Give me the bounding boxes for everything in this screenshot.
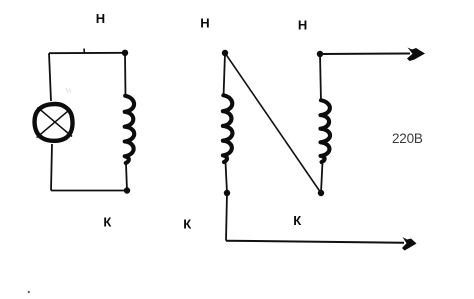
junction node right top bbox=[317, 51, 323, 57]
wire right vertical upper bbox=[320, 54, 321, 102]
diagonal wire middle-top to right-bottom bbox=[225, 53, 321, 193]
stray tick on wire bbox=[83, 49, 85, 54]
svg-text:К: К bbox=[293, 213, 301, 228]
junction node middle lower bbox=[224, 190, 230, 196]
wire right vertical lower bbox=[321, 162, 323, 193]
winding L3 bbox=[321, 100, 331, 162]
wire middle vertical lower bbox=[226, 162, 228, 193]
wire left vertical upper bbox=[49, 53, 51, 101]
junction node middle top bbox=[222, 50, 228, 56]
svg-text:220В: 220В bbox=[392, 131, 423, 146]
wire left-branch right vertical upper bbox=[124, 53, 127, 97]
svg-text:К: К bbox=[183, 216, 191, 231]
wire top supply line bbox=[320, 53, 410, 56]
wire bottom-left horizontal bbox=[51, 190, 127, 192]
wire left-branch right vertical lower bbox=[126, 164, 127, 191]
junction node left bottom bbox=[124, 187, 130, 193]
svg-text:Н: Н bbox=[200, 16, 209, 31]
svg-text:Н: Н bbox=[298, 17, 307, 32]
lamp EL bbox=[35, 104, 73, 141]
junction node right bottom bbox=[318, 190, 324, 196]
wire middle vertical to bottom bus bbox=[226, 193, 227, 241]
faint smudge bbox=[66, 88, 71, 93]
stray dot bottom-left bbox=[28, 291, 30, 293]
arrowhead bottom supply bbox=[402, 237, 417, 251]
winding L1 bbox=[125, 96, 135, 163]
svg-text:Н: Н bbox=[96, 11, 105, 26]
junction node left top bbox=[122, 50, 128, 56]
wire top-left horizontal bbox=[49, 52, 125, 54]
arrowhead top supply bbox=[407, 48, 425, 62]
svg-text:К: К bbox=[103, 214, 111, 229]
wire bottom supply line bbox=[226, 241, 404, 243]
wire left vertical lower bbox=[51, 144, 52, 191]
winding L2 bbox=[223, 95, 233, 162]
wire middle vertical upper bbox=[224, 53, 226, 97]
